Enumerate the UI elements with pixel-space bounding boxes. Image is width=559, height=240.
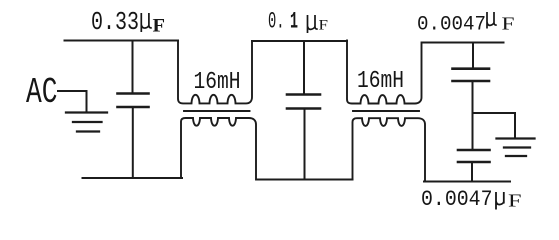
wire to ground G2 [473, 113, 516, 137]
svg-text:0.: 0. [268, 9, 285, 35]
wire top rail segment 2 [252, 40, 347, 42]
capacitor C1 top leg [132, 41, 134, 93]
ground G1 [66, 113, 107, 132]
svg-text:F: F [508, 191, 522, 211]
capacitor C1 plates [118, 94, 149, 108]
inductor L2 core [353, 110, 419, 112]
capacitor C2 top leg [303, 41, 305, 93]
svg-text:AC: AC [26, 72, 58, 113]
svg-text:16mH: 16mH [357, 68, 404, 95]
label C3 mu glyph [487, 12, 497, 29]
wire bottom rail segment 1 [83, 177, 183, 179]
label C2 mu glyph [308, 15, 318, 33]
ground G2 [497, 139, 535, 157]
svg-text:F: F [153, 16, 166, 37]
inductor L2 bottom winding [353, 118, 426, 181]
wire top rail segment 3 [422, 42, 504, 44]
svg-text:F: F [502, 14, 515, 34]
capacitor C4 plates [458, 150, 490, 162]
capacitor C3 top leg [472, 43, 474, 68]
capacitor C4 bottom leg [471, 163, 473, 182]
label C1 mu glyph [141, 13, 152, 32]
inductor L1 bottom winding [181, 118, 256, 180]
capacitor C1 bottom leg [132, 108, 134, 178]
inductor L1 top winding [178, 41, 252, 104]
wire top rail segment 1 [65, 40, 179, 42]
svg-text:16mH: 16mH [194, 69, 241, 96]
svg-text:0.0047: 0.0047 [421, 187, 493, 212]
capacitor C2 plates [287, 95, 320, 109]
inductor L2 top winding [347, 41, 422, 104]
svg-text:F: F [319, 18, 329, 34]
svg-text:0.33: 0.33 [91, 7, 139, 37]
wire bottom rail segment 3 [424, 181, 510, 183]
wire bottom rail segment 2 [257, 179, 353, 181]
capacitor C3 plates [453, 69, 490, 81]
wire AC lead [58, 91, 87, 112]
capacitor C2 bottom leg [304, 110, 306, 180]
inductor L1 core [184, 110, 250, 112]
svg-text:0.0047: 0.0047 [417, 14, 486, 37]
svg-text:1: 1 [290, 9, 298, 35]
label C4 mu glyph [496, 192, 504, 210]
capacitor C3 to C4 middle leg [472, 82, 474, 149]
